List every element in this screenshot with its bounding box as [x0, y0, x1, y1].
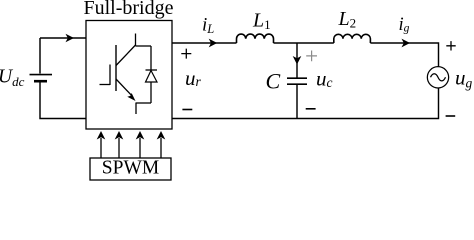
- svg-text:SPWM: SPWM: [102, 158, 159, 179]
- label iL: [202, 15, 214, 36]
- label + (ur): [181, 49, 191, 59]
- label L2: [338, 8, 357, 30]
- body bar: [115, 45, 117, 91]
- top link: [136, 45, 152, 47]
- battery Udc (DC source): [30, 75, 53, 82]
- wire: capacitor node to L2: [297, 42, 334, 44]
- cathode lead: [150, 46, 152, 70]
- label Udc: [0, 67, 25, 89]
- current arrow iL: [209, 39, 218, 48]
- svg-text:C: C: [266, 69, 281, 94]
- label C: [266, 69, 281, 94]
- label ug: [455, 66, 473, 91]
- inductor L2: [334, 34, 371, 43]
- wire: bottom return rail: [172, 88, 439, 119]
- label + (uc): [306, 51, 317, 62]
- block: SPWM box: [90, 158, 171, 181]
- inductor L1: [237, 34, 274, 43]
- transistor Q1 (IGBT): [100, 34, 137, 115]
- label Full-bridge: [84, 0, 174, 19]
- label L1: [252, 10, 271, 32]
- wire: L1 to capacitor node: [274, 42, 298, 44]
- collector stub: [135, 34, 137, 47]
- block: Full-bridge inverter box: [86, 21, 172, 130]
- gate lead: [100, 84, 111, 86]
- label - (uc): [306, 108, 316, 110]
- wire: DC negative (bottom): [40, 83, 86, 119]
- svg-text:Full-bridge: Full-bridge: [84, 0, 174, 19]
- wire: DC positive (top) with arrow into bridge: [40, 34, 86, 74]
- gate drive arrow 4: [157, 131, 166, 158]
- label uc: [316, 67, 333, 91]
- triangle: [146, 71, 158, 83]
- emitter stub: [135, 103, 137, 115]
- anode lead: [150, 82, 152, 103]
- current arrow ig: [402, 39, 411, 48]
- bottom link: [136, 102, 151, 104]
- diode D1 (anti-parallel): [136, 46, 158, 103]
- label - (ug): [446, 115, 456, 117]
- gate drive arrow 1: [97, 131, 106, 158]
- emitter diagonal with arrow: [116, 79, 131, 95]
- label ig: [399, 15, 410, 35]
- label + (ug): [446, 41, 455, 50]
- gate bar: [109, 65, 111, 86]
- AC source ug (grid): [427, 67, 448, 88]
- gate drive arrow 2: [115, 131, 124, 158]
- label ur: [185, 66, 202, 90]
- cathode bar: [146, 69, 158, 71]
- wire: bridge output to L1, node iL: [172, 42, 237, 44]
- wire: L2 to grid source, node ig: [370, 43, 438, 67]
- collector diagonal: [116, 45, 136, 66]
- gate drive arrow 3: [136, 131, 145, 158]
- capacitor C branch with current arrow: [287, 43, 307, 119]
- label - (ur): [182, 109, 192, 111]
